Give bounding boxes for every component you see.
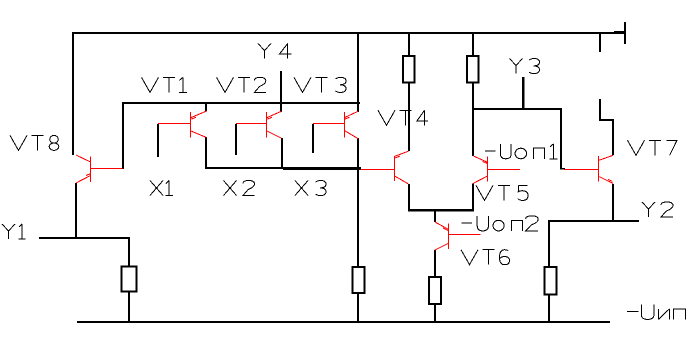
- wire emitter bus: [206, 167, 361, 169]
- wire R6 to bottom rail: [548, 296, 550, 323]
- wire bottom supply rail: [77, 321, 610, 323]
- wire Y3 horizontal: [472, 108, 562, 110]
- net label -Uip: [627, 304, 686, 319]
- wire R5 to bottom rail: [357, 294, 359, 322]
- transistor VT6: [435, 222, 481, 250]
- input X3: [295, 181, 326, 196]
- wire VT8 collector to rail: [72, 34, 74, 155]
- wire VT3 emitter to resistor: [357, 138, 359, 266]
- node label VT5: [476, 185, 528, 200]
- resistor R1 (Y1 load): [122, 267, 137, 292]
- node label VT8: [10, 135, 59, 150]
- wire X3 stub: [312, 124, 314, 153]
- wire collector bus: [122, 102, 360, 104]
- wire Y1 horizontal: [39, 237, 130, 239]
- transistor VT8: [76, 155, 123, 183]
- resistor R4 (VT6 emitter): [429, 277, 441, 304]
- wire Y2 horizontal: [548, 220, 639, 222]
- wire Y1 to R1: [128, 239, 130, 266]
- wire VT7 collector vertical upper: [599, 99, 601, 121]
- resistor R3 (VT5 collector load): [467, 56, 478, 83]
- wire rail to VT3 collector: [357, 34, 359, 112]
- wire VT7 collector drop: [612, 121, 614, 155]
- wire rail to R2: [408, 34, 410, 55]
- wire Y3 to VT7 base vertical: [560, 110, 562, 170]
- transistor VT2: [236, 111, 282, 138]
- resistor R2 (VT4 collector load): [403, 56, 414, 83]
- wire Y2 to R6: [548, 222, 550, 266]
- net label -Uop1: [485, 144, 558, 159]
- wire VT8 base riser: [122, 104, 124, 169]
- node label VT2: [217, 77, 266, 92]
- wire Y4 stub: [280, 71, 282, 112]
- transistor VT7: [564, 155, 613, 183]
- input X1: [150, 181, 173, 196]
- wire VT1 collector stub: [205, 104, 207, 112]
- wire VT1 emitter drop: [205, 137, 207, 169]
- node label VT4: [378, 110, 428, 125]
- output Y2: [642, 202, 673, 217]
- output Y4: [258, 44, 292, 59]
- wire rail stub above VT7: [599, 34, 601, 52]
- resistor R6 (Y2 load): [545, 267, 557, 295]
- wire Y3 stub: [522, 77, 525, 110]
- wire to VT7 base: [560, 168, 565, 170]
- wire emitter coupling bus: [408, 209, 474, 212]
- net label -Uop2: [462, 216, 539, 231]
- wire VT2 emitter drop: [281, 138, 283, 169]
- transistor VT3: [313, 111, 359, 139]
- wire VT7 collector jog: [599, 119, 614, 121]
- wire rail end step: [614, 31, 626, 32]
- output Y1: [2, 224, 26, 239]
- node label VT6: [461, 250, 510, 265]
- wire emitter bus right thick part: [283, 169, 361, 170]
- wire rail to R3: [472, 34, 474, 55]
- wire VT6 emitter to R4: [434, 250, 436, 276]
- resistor R5 (VT3 emitter load): [353, 267, 365, 293]
- transistor VT1: [158, 111, 207, 138]
- wire VT8 emitter to Y1: [75, 183, 77, 239]
- wire X2 stub: [235, 124, 237, 155]
- wire R4 to ground rail: [434, 305, 436, 322]
- node label VT7: [628, 140, 678, 155]
- transistor VT5: [473, 156, 520, 184]
- wire top supply rail: [72, 32, 626, 34]
- wire VT7 emitter to Y2: [612, 184, 614, 222]
- node label VT3: [294, 77, 346, 92]
- wire R1 to bottom rail: [128, 293, 130, 323]
- wire X1 stub: [157, 124, 159, 157]
- wire R3 to VT5 collector: [472, 84, 474, 157]
- input X2: [224, 181, 255, 196]
- wire VT5 emitter drop: [472, 184, 474, 211]
- wire R2 to VT4 collector: [408, 84, 410, 152]
- node label VT1: [142, 77, 187, 92]
- output Y3: [510, 59, 540, 74]
- transistor VT4: [361, 151, 409, 184]
- wire VT6 collector: [434, 212, 436, 223]
- wire VT4 emitter drop: [408, 184, 410, 211]
- terminal crossbar top right: [624, 22, 626, 44]
